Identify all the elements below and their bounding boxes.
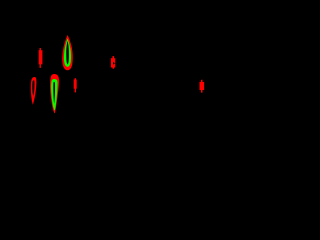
annotation ring D outer red <box>31 77 37 105</box>
annotation teardrop E inner green ring <box>51 79 57 111</box>
ring D black interior <box>32 80 34 96</box>
candle F wick <box>75 78 76 92</box>
candle C wick <box>112 56 114 58</box>
teardrop B black interior <box>66 41 69 64</box>
candle C body <box>111 58 115 67</box>
annotation teardrop B outer red ring <box>62 35 73 70</box>
candle C black notch <box>113 62 115 65</box>
candle A body <box>39 50 43 64</box>
annotation teardrop B inner green ring <box>64 39 71 67</box>
candle F body <box>74 80 77 89</box>
annotation teardrop E outer red ring <box>50 74 59 114</box>
candle A wick <box>40 48 41 68</box>
teardrop E black interior <box>53 82 55 104</box>
candle H body <box>200 82 205 90</box>
candle H wick <box>201 80 203 93</box>
